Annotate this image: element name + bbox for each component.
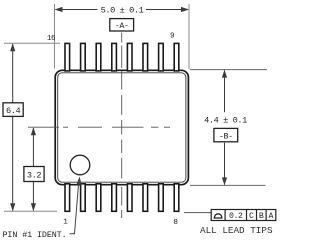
svg-text:0.2: 0.2 [229, 212, 243, 221]
dimension 4.4 line [222, 70, 227, 186]
svg-text:3.2: 3.2 [27, 171, 42, 181]
svg-text:4.4 ± 0.1: 4.4 ± 0.1 [204, 115, 247, 125]
dimension box 3.2 [24, 167, 44, 182]
svg-text:5.0 ± 0.1: 5.0 ± 0.1 [101, 6, 144, 16]
pin 15 [81, 43, 86, 71]
dimension 5.0 line [55, 7, 190, 12]
vertical centerline [121, 33, 123, 219]
pin 11 [143, 43, 148, 71]
svg-text:-B-: -B- [219, 131, 233, 141]
pin 12 [127, 43, 132, 71]
feature control frame [211, 210, 276, 221]
svg-text:PIN #1 IDENT.: PIN #1 IDENT. [3, 230, 67, 240]
pin 1 [65, 184, 70, 212]
pin 2 [81, 184, 86, 212]
pin 13 [112, 43, 117, 71]
svg-text:16: 16 [47, 35, 56, 43]
package body outline inner [58, 73, 186, 182]
leader to datum frame [184, 212, 212, 214]
bottom pins row [65, 184, 179, 212]
svg-text:6.4: 6.4 [6, 106, 21, 116]
leader line pin1 ident [70, 177, 82, 234]
extension line body bottom right [190, 184, 266, 186]
pin 4 [112, 184, 117, 212]
svg-text:-A-: -A- [115, 21, 129, 31]
dimension 3.2 line [31, 127, 36, 211]
pin 3 [96, 184, 101, 212]
svg-text:9: 9 [170, 33, 175, 41]
package body outline outer [55, 70, 188, 184]
dimension 6.4 line [10, 43, 15, 211]
extension line right of body for 5.0 dim [188, 4, 190, 69]
pin 1 ident circle [70, 155, 90, 175]
svg-text:C: C [249, 212, 254, 221]
datum box -B- [214, 128, 238, 141]
extension line bottom lead tips [4, 210, 57, 212]
svg-text:B: B [259, 212, 264, 221]
svg-text:1: 1 [63, 219, 68, 227]
svg-text:A: A [269, 212, 274, 221]
pin 7 [159, 184, 164, 212]
extension line body top right [190, 69, 267, 71]
pin 10 [159, 43, 164, 71]
svg-text:ALL LEAD TIPS: ALL LEAD TIPS [200, 225, 273, 236]
dimension box 6.4 [3, 103, 23, 117]
horizontal centerline [28, 126, 170, 128]
pin 6 [143, 184, 148, 212]
extension line left of body for 5.0 dim [54, 4, 56, 69]
pin 9 [174, 43, 179, 71]
pin 8 [174, 184, 179, 212]
extension line top lead tips [4, 42, 60, 44]
pin 16 [65, 43, 70, 71]
datum box -A- [110, 19, 134, 31]
seating plane symbol [214, 214, 222, 218]
top pins row [65, 43, 179, 71]
pin 5 [127, 184, 132, 212]
svg-text:8: 8 [173, 219, 178, 227]
pin 14 [96, 43, 101, 71]
